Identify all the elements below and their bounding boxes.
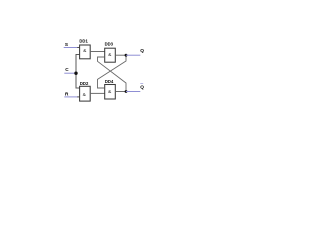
node S label [65, 42, 68, 47]
wire cross-coupling from DD3 output junction down-left to DD4 upper input [98, 55, 127, 88]
node Qbar junction dot [125, 90, 128, 93]
wire DD3 output to Q junction [115, 54, 126, 56]
gate DD4 label [105, 79, 114, 84]
node Q label [140, 48, 144, 53]
svg-text:DD2: DD2 [80, 81, 89, 86]
svg-text:R: R [65, 92, 69, 97]
wire C branch up to DD1 lower input [76, 55, 80, 74]
wire C branch down to DD2 upper input [76, 73, 80, 88]
wire R pin stub into DD2 [77, 96, 79, 98]
node Q junction dot [125, 54, 128, 57]
svg-text:Q: Q [140, 85, 144, 90]
gate DD1 label [79, 38, 88, 43]
svg-text:DD1: DD1 [79, 38, 88, 43]
wire R net [64, 96, 78, 98]
gate DD4 (AND) body [105, 85, 116, 100]
node C junction dot [74, 72, 77, 75]
node Qbar label with overline [140, 83, 144, 89]
svg-text:S: S [65, 42, 68, 47]
wire Qbar net [126, 91, 140, 93]
wire DD1 output to DD3 upper input [90, 51, 105, 53]
wire S net [64, 47, 78, 49]
wire S pin stub into DD1 [77, 47, 79, 49]
gate DD1 (AND) body [80, 45, 91, 59]
svg-text:C: C [65, 67, 69, 72]
svg-text:DD3: DD3 [105, 41, 114, 46]
node R label [65, 92, 69, 97]
gate DD3 (AND) body [105, 48, 116, 62]
gate DD2 label [80, 81, 89, 86]
node C label [65, 67, 69, 72]
wire C net [64, 72, 76, 74]
gate DD2 (AND) body [80, 86, 91, 101]
svg-text:DD4: DD4 [105, 79, 114, 84]
wire Q net [126, 54, 140, 56]
wire DD2 output to DD4 lower input [90, 92, 105, 94]
wire DD4 output to Qbar junction [115, 91, 126, 93]
wire cross-coupling from DD4 output junction up-left to DD3 lower input [98, 57, 127, 92]
svg-text:Q: Q [140, 48, 144, 53]
gate DD3 label [105, 41, 114, 46]
